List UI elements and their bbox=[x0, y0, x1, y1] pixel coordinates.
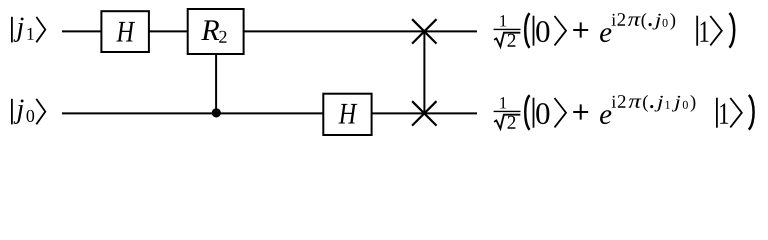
label ket j1 (top input) bbox=[12, 17, 45, 43]
superscript 2 bbox=[617, 13, 625, 26]
control wire from R2 to control dot bbox=[215, 54, 217, 113]
digit 1 bbox=[700, 21, 708, 41]
big right paren bbox=[749, 95, 754, 130]
rangle of |1> bbox=[710, 16, 722, 45]
wire q1 (top qubit wire) bbox=[62, 30, 477, 32]
big right paren bbox=[729, 13, 734, 48]
digit 0 bbox=[536, 103, 549, 124]
label ket j0 (bottom input) bbox=[12, 99, 45, 125]
ket bar of |1> bbox=[716, 98, 718, 128]
superscript 2 bbox=[618, 95, 626, 108]
denominator 2 bbox=[508, 116, 516, 129]
ket bar of |0> bbox=[533, 98, 535, 128]
superscript pi bbox=[628, 17, 641, 26]
big left paren bbox=[525, 95, 529, 130]
swap cross on q2 bbox=[412, 101, 436, 125]
superscript i bbox=[612, 96, 616, 108]
gate H1 (Hadamard on q1) bbox=[101, 11, 148, 52]
superscript right paren bbox=[670, 13, 675, 30]
superscript dot bbox=[649, 23, 652, 26]
subsubscript 0 bbox=[683, 101, 688, 109]
plus sign bbox=[573, 111, 588, 113]
rangle of |0> bbox=[555, 16, 567, 45]
gate H2 (Hadamard on q2) bbox=[323, 94, 371, 135]
fraction bar bbox=[494, 28, 521, 30]
ket bar of |1> bbox=[696, 16, 698, 46]
superscript right paren bbox=[691, 95, 696, 112]
subsubscript 1 bbox=[666, 101, 670, 109]
fraction numerator 1 bbox=[500, 97, 506, 108]
e bbox=[600, 28, 611, 42]
denominator 2 bbox=[508, 34, 516, 47]
superscript j bbox=[652, 14, 660, 30]
ket bar of |0> bbox=[533, 16, 535, 46]
superscript dot bbox=[650, 105, 653, 108]
superscript left paren bbox=[643, 95, 648, 112]
swap vertical line bbox=[423, 31, 425, 113]
radical sign bbox=[494, 115, 520, 129]
fraction bar bbox=[494, 110, 521, 112]
superscript pi bbox=[629, 99, 642, 108]
superscript i bbox=[612, 14, 616, 26]
plus sign bbox=[573, 29, 588, 31]
control dot on q2 bbox=[212, 108, 221, 117]
output formula bottom: 1/sqrt2 (|0> + e^{i2pi(.j1j0)} |1>) bbox=[494, 95, 754, 130]
big left paren bbox=[525, 13, 529, 48]
wire q2 (bottom qubit wire) bbox=[62, 112, 477, 114]
superscript j (second) bbox=[672, 96, 680, 112]
swap cross on q1 bbox=[412, 19, 436, 43]
superscript left paren bbox=[642, 13, 647, 30]
superscript j (first) bbox=[654, 96, 662, 112]
rangle of |0> bbox=[555, 98, 567, 127]
digit 1 bbox=[720, 103, 728, 123]
subsubscript 0 bbox=[663, 19, 668, 27]
fraction numerator 1 bbox=[500, 15, 506, 26]
rangle of |1> bbox=[730, 98, 742, 127]
radical sign bbox=[494, 33, 520, 47]
gate R2 (controlled phase on q1) bbox=[188, 9, 244, 54]
e bbox=[600, 110, 611, 124]
digit 0 bbox=[536, 21, 549, 42]
output formula top: 1/sqrt2 (|0> + e^{i2pi(.j0)} |1>) bbox=[494, 13, 735, 48]
